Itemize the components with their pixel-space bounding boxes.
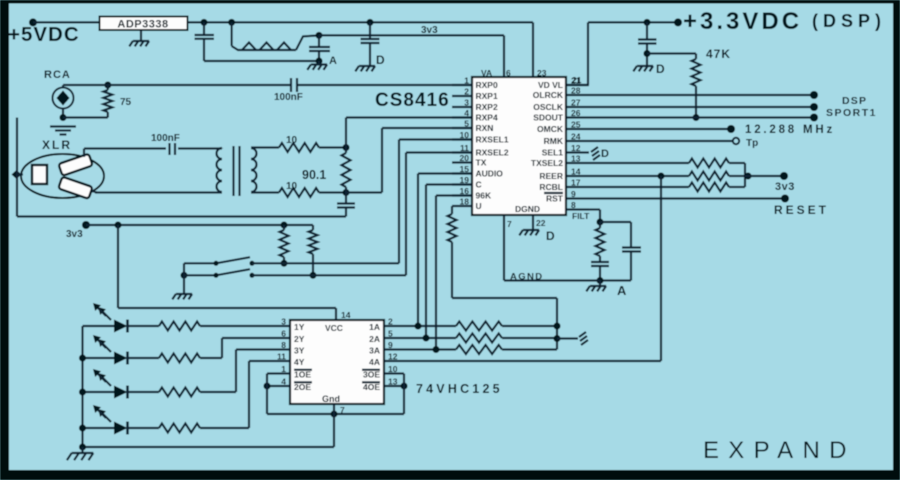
svg-text:10: 10 xyxy=(286,181,298,192)
svg-text:20: 20 xyxy=(460,153,470,163)
svg-text:+3.3VDC: +3.3VDC xyxy=(683,8,802,35)
svg-text:SPORT1: SPORT1 xyxy=(826,107,877,119)
svg-text:17: 17 xyxy=(571,178,581,188)
svg-text:RCBL: RCBL xyxy=(539,182,563,192)
svg-text:OSCLK: OSCLK xyxy=(533,102,564,112)
svg-text:4A: 4A xyxy=(369,357,380,367)
svg-text:23: 23 xyxy=(537,68,547,78)
svg-text:2: 2 xyxy=(464,87,469,97)
svg-text:3OE: 3OE xyxy=(363,370,380,380)
svg-text:24: 24 xyxy=(571,132,581,142)
svg-text:OMCK: OMCK xyxy=(537,124,564,134)
svg-text:12: 12 xyxy=(571,143,581,153)
svg-text:RXN: RXN xyxy=(476,123,494,133)
svg-text:3v3: 3v3 xyxy=(66,229,83,240)
svg-text:CS8416: CS8416 xyxy=(375,90,450,111)
svg-text:18: 18 xyxy=(460,197,470,207)
svg-text:C: C xyxy=(476,180,482,190)
svg-text:(DSP): (DSP) xyxy=(812,11,886,31)
svg-text:Gnd: Gnd xyxy=(322,394,340,404)
svg-text:3v3: 3v3 xyxy=(421,25,438,36)
svg-text:9: 9 xyxy=(571,189,576,199)
svg-text:10: 10 xyxy=(460,130,470,140)
svg-text:2Y: 2Y xyxy=(294,334,305,344)
svg-text:A: A xyxy=(329,55,337,67)
svg-text:EXPAND: EXPAND xyxy=(703,437,856,464)
svg-text:DGND: DGND xyxy=(515,204,540,214)
svg-text:27: 27 xyxy=(571,98,581,108)
svg-text:XLR: XLR xyxy=(42,138,72,152)
svg-text:OLRCK: OLRCK xyxy=(533,90,564,100)
svg-text:RXSEL1: RXSEL1 xyxy=(476,135,509,145)
svg-text:RCA: RCA xyxy=(44,69,71,81)
svg-text:D: D xyxy=(601,148,609,160)
svg-text:AUDIO: AUDIO xyxy=(476,169,504,179)
svg-text:1A: 1A xyxy=(369,322,380,332)
svg-text:75: 75 xyxy=(120,97,132,108)
svg-text:TXSEL2: TXSEL2 xyxy=(531,158,563,168)
svg-text:4Y: 4Y xyxy=(294,357,305,367)
svg-text:TX: TX xyxy=(476,158,487,168)
svg-text:D: D xyxy=(546,229,555,243)
svg-text:+5VDC: +5VDC xyxy=(8,23,80,46)
svg-text:13: 13 xyxy=(571,154,581,164)
svg-text:22: 22 xyxy=(536,218,546,228)
svg-text:4: 4 xyxy=(464,108,469,118)
svg-text:D: D xyxy=(656,62,665,76)
svg-text:VCC: VCC xyxy=(325,323,343,333)
svg-text:11: 11 xyxy=(460,143,469,153)
svg-text:74VHC125: 74VHC125 xyxy=(416,382,503,396)
svg-text:SEL1: SEL1 xyxy=(542,148,564,158)
svg-text:28: 28 xyxy=(571,86,581,96)
svg-text:5: 5 xyxy=(464,119,469,129)
svg-text:7: 7 xyxy=(507,219,512,229)
svg-text:14: 14 xyxy=(341,310,351,320)
svg-text:4OE: 4OE xyxy=(363,382,380,392)
svg-text:12.288 MHz: 12.288 MHz xyxy=(745,124,835,136)
svg-text:Tp: Tp xyxy=(746,138,758,149)
svg-text:8: 8 xyxy=(571,200,576,210)
svg-text:21: 21 xyxy=(572,75,582,85)
svg-text:D: D xyxy=(376,53,385,67)
svg-text:10: 10 xyxy=(286,135,298,146)
svg-text:2OE: 2OE xyxy=(294,382,311,392)
svg-text:26: 26 xyxy=(571,108,581,118)
svg-text:RXP1: RXP1 xyxy=(476,91,498,101)
svg-text:2A: 2A xyxy=(369,334,380,344)
svg-text:1: 1 xyxy=(464,76,469,86)
svg-text:FILT: FILT xyxy=(572,211,590,221)
svg-text:AGND: AGND xyxy=(510,272,544,283)
svg-text:VD VL: VD VL xyxy=(538,80,563,90)
svg-text:96K: 96K xyxy=(476,191,492,201)
svg-text:RXSEL2: RXSEL2 xyxy=(476,148,509,158)
svg-text:3: 3 xyxy=(464,98,469,108)
svg-text:VA: VA xyxy=(481,68,492,78)
svg-text:RXP4: RXP4 xyxy=(476,113,498,123)
svg-text:U: U xyxy=(476,201,482,211)
svg-text:REER: REER xyxy=(539,171,563,181)
svg-text:RMK: RMK xyxy=(544,136,564,146)
svg-text:RESET: RESET xyxy=(774,203,829,217)
svg-text:DSP: DSP xyxy=(842,95,867,107)
svg-text:1OE: 1OE xyxy=(294,370,311,380)
svg-text:3v3: 3v3 xyxy=(775,181,795,193)
svg-text:47K: 47K xyxy=(706,47,731,61)
svg-text:3Y: 3Y xyxy=(294,346,305,356)
svg-text:RXP0: RXP0 xyxy=(476,80,498,90)
svg-text:6: 6 xyxy=(506,68,511,78)
svg-text:25: 25 xyxy=(571,120,581,130)
svg-text:ADP3338: ADP3338 xyxy=(117,19,168,31)
svg-text:RXP2: RXP2 xyxy=(476,102,498,112)
svg-text:14: 14 xyxy=(571,167,581,177)
svg-text:90.1: 90.1 xyxy=(302,168,326,182)
svg-text:RST: RST xyxy=(546,194,564,204)
svg-text:100nF: 100nF xyxy=(274,92,303,103)
svg-text:A: A xyxy=(617,283,627,298)
svg-text:1Y: 1Y xyxy=(294,322,305,332)
svg-text:3A: 3A xyxy=(369,346,380,356)
svg-text:SDOUT: SDOUT xyxy=(533,113,564,123)
svg-text:100nF: 100nF xyxy=(151,133,180,144)
